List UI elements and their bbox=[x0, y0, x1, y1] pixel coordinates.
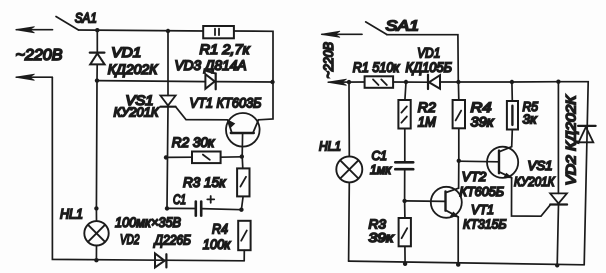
svg-text:КУ201К: КУ201К bbox=[114, 105, 160, 120]
svg-text:1мк: 1мк bbox=[370, 162, 392, 177]
transistor VT2 bbox=[487, 147, 518, 178]
svg-text:100мк×35В: 100мк×35В bbox=[115, 214, 181, 230]
switch SA1 (right) bbox=[366, 22, 387, 35]
svg-text:R2: R2 bbox=[418, 100, 437, 115]
svg-text:VT2: VT2 bbox=[462, 169, 487, 184]
svg-text:39к: 39к bbox=[471, 115, 495, 130]
junction dot bbox=[404, 80, 408, 84]
svg-text:С1: С1 bbox=[372, 148, 388, 163]
wire R3 to C1 node bbox=[241, 196, 243, 209]
svg-text:КТ315Б: КТ315Б bbox=[463, 216, 507, 231]
junction dot bbox=[165, 206, 169, 210]
wire R1 to VD1 bbox=[393, 81, 428, 83]
junction dot bbox=[166, 29, 170, 33]
wire base to R3 bbox=[241, 156, 244, 168]
wire VD1 to R5 node bbox=[440, 81, 512, 83]
junction dot bbox=[95, 78, 99, 82]
junction dot bbox=[555, 263, 559, 267]
svg-text:VD2: VD2 bbox=[120, 232, 140, 247]
lamp HL1 (right) bbox=[336, 82, 362, 261]
wire C1 node to R3 bbox=[404, 201, 406, 218]
junction dot bbox=[270, 80, 274, 84]
wire R3 bottom bbox=[404, 246, 406, 263]
svg-text:VS1: VS1 bbox=[528, 158, 553, 173]
svg-text:VD2 КД202К: VD2 КД202К bbox=[564, 94, 579, 185]
svg-text:R4: R4 bbox=[471, 100, 492, 115]
wire R4 bottom bbox=[243, 250, 245, 261]
wire VS1 anode bbox=[167, 31, 169, 96]
diode VD2 (right) bbox=[578, 126, 596, 142]
wire bottom rail (right) bbox=[349, 261, 585, 265]
resistor R3 bbox=[237, 168, 249, 196]
diode VD1 (right, cathode left) bbox=[428, 75, 440, 89]
svg-text:R3 15к: R3 15к bbox=[183, 174, 227, 190]
zener VD3 bbox=[205, 71, 215, 89]
svg-text:VD1: VD1 bbox=[417, 46, 440, 61]
svg-text:С1: С1 bbox=[173, 192, 186, 207]
wire VD1 cathode down to C1 node bbox=[95, 81, 98, 209]
wire from R1 to right corner, down to collector branch bbox=[234, 31, 273, 120]
wire VT2 emitter to VS1 gate bbox=[512, 178, 551, 217]
junction dot bbox=[402, 199, 406, 203]
svg-text:R1 2,7к: R1 2,7к bbox=[200, 41, 251, 57]
svg-text:VD3 Д814А: VD3 Д814А bbox=[175, 57, 247, 73]
svg-text:SA1: SA1 bbox=[386, 18, 420, 34]
junction dot bbox=[240, 154, 244, 158]
svg-text:~220В: ~220В bbox=[321, 42, 336, 79]
thyristor VS1 bbox=[160, 96, 227, 209]
junction dot bbox=[347, 80, 351, 84]
svg-text:КУ201К: КУ201К bbox=[514, 174, 556, 189]
transistor VT1 (right) bbox=[431, 187, 462, 218]
junction dot bbox=[456, 262, 460, 266]
junction dot bbox=[94, 206, 98, 210]
transistor VT1 bbox=[226, 113, 260, 156]
junction dot bbox=[95, 28, 99, 32]
svg-text:~220В: ~220В bbox=[16, 47, 63, 64]
junction dot bbox=[403, 262, 407, 266]
diode VD1 bbox=[90, 30, 105, 80]
wire R5 node to VS1 node bbox=[512, 81, 559, 83]
resistor R5 bbox=[507, 82, 518, 147]
resistor R4 (right) bbox=[453, 82, 465, 161]
junction dot bbox=[510, 80, 514, 84]
diode VD2 bbox=[155, 253, 166, 267]
svg-text:HL1: HL1 bbox=[319, 139, 341, 154]
node ~220V lower lead arrow bbox=[16, 74, 53, 80]
wire SA1 to right drop bbox=[387, 35, 459, 82]
junction dot bbox=[457, 159, 461, 163]
capacitor C1 bbox=[167, 202, 241, 216]
resistor R2 bbox=[192, 152, 221, 164]
junction dot bbox=[456, 80, 460, 84]
plus mark bbox=[207, 196, 214, 203]
wire base VT1 (right) bbox=[405, 200, 445, 203]
lamp HL1 bbox=[84, 208, 108, 260]
svg-text:1М: 1М bbox=[418, 115, 437, 130]
svg-text:R1 510к: R1 510к bbox=[353, 60, 400, 75]
wire left rail bbox=[52, 77, 244, 261]
svg-text:100к: 100к bbox=[203, 236, 232, 252]
junction dot bbox=[94, 258, 98, 262]
svg-text:3к: 3к bbox=[523, 111, 538, 126]
svg-text:VT1: VT1 bbox=[471, 202, 494, 217]
resistor R1 (right) bbox=[365, 76, 394, 88]
resistor R1 (2W) bbox=[203, 26, 234, 38]
junction dot bbox=[239, 208, 243, 212]
wire top right corner bbox=[558, 82, 588, 265]
wire top rail bbox=[79, 30, 204, 31]
junction dot bbox=[556, 80, 560, 84]
thyristor VS1 (right) bbox=[550, 82, 567, 266]
resistor R3 (right) bbox=[399, 218, 411, 246]
wire R4 node to VT1 collector bbox=[458, 161, 460, 188]
node ~220V lower lead arrow (right) bbox=[328, 79, 365, 85]
svg-text:39к: 39к bbox=[369, 230, 395, 245]
resistor R4 bbox=[238, 221, 250, 250]
svg-text:VT1 КТ603Б: VT1 КТ603Б bbox=[190, 94, 262, 110]
svg-text:КД105Б: КД105Б bbox=[406, 60, 453, 75]
wire VT1 emitter down bbox=[457, 217, 459, 265]
capacitor C1 (right) bbox=[395, 129, 413, 201]
wire R2 right bbox=[221, 156, 242, 158]
svg-text:КД202К: КД202К bbox=[108, 62, 159, 77]
svg-text:Д226Б: Д226Б bbox=[153, 233, 191, 248]
svg-text:КТ605Б: КТ605Б bbox=[460, 184, 505, 199]
wire R2 left bbox=[166, 156, 192, 158]
switch SA1 bbox=[56, 17, 79, 31]
resistor R2 (right) bbox=[398, 82, 410, 129]
node ~220V upper lead arrow (right) bbox=[321, 31, 362, 37]
svg-text:R2 30к: R2 30к bbox=[172, 134, 216, 150]
wire R4 node to VT2 base bbox=[459, 160, 498, 163]
wire VD3 rail bbox=[97, 81, 205, 82]
node ~220V upper lead arrow bbox=[16, 27, 53, 33]
svg-text:SA1: SA1 bbox=[75, 9, 97, 25]
svg-text:HL1: HL1 bbox=[60, 206, 83, 221]
svg-text:R4: R4 bbox=[212, 221, 228, 237]
junction dot bbox=[164, 155, 168, 159]
wire zener to right rail bbox=[217, 81, 273, 83]
svg-text:VD1: VD1 bbox=[111, 44, 141, 60]
